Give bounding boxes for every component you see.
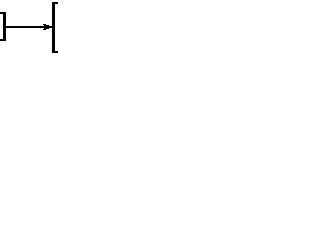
right bracket [ vertical xyxy=(52,2,55,53)
arrowhead upper barb xyxy=(43,24,46,25)
left bracket ] vertical xyxy=(3,12,6,41)
right bracket [ bottom arm xyxy=(52,51,58,53)
right bracket [ top arm xyxy=(52,2,58,4)
left bracket ] bottom arm xyxy=(0,39,6,41)
wire (arrow shaft) xyxy=(5,26,52,28)
background xyxy=(0,0,58,56)
left bracket ] top arm xyxy=(0,12,6,14)
arrowhead lower barb xyxy=(44,28,49,29)
